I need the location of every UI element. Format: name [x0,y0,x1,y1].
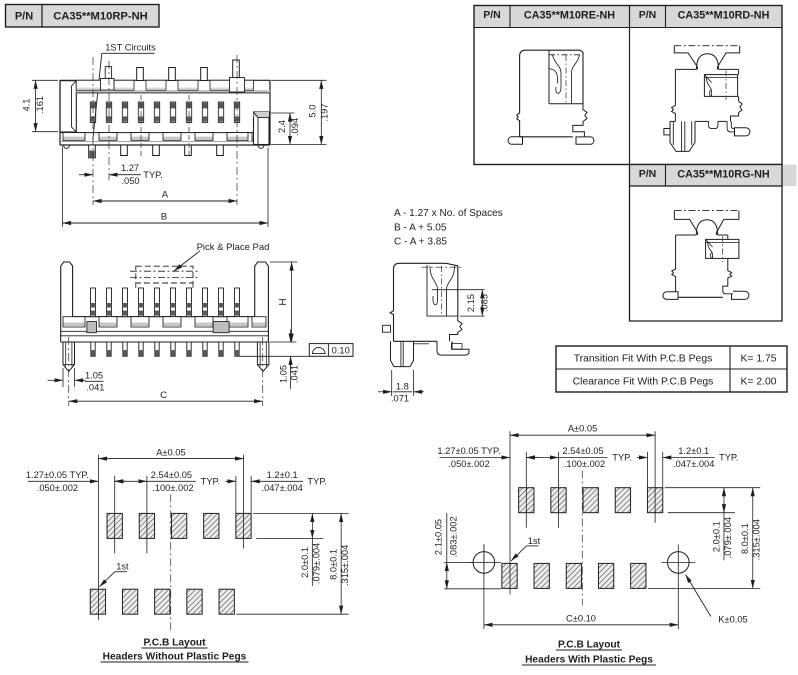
rear view: body outline with end towers [61,262,269,342]
svg-text:P/N: P/N [639,9,657,21]
svg-text:CA35**M10RP-NH: CA35**M10RP-NH [53,11,148,23]
svg-text:K±0.05: K±0.05 [718,614,747,624]
peg holes (circles) in right PCB layout [467,544,695,629]
dimension A±0.05 [510,424,655,436]
svg-text:Headers With Plastic Pegs: Headers With Plastic Pegs [525,655,653,666]
svg-text:K= 1.75: K= 1.75 [740,354,776,365]
front view: contact slot 3 [122,102,127,123]
side view CA35**M10RG-NH [663,211,749,300]
dimension 2.4/.094 polarization height [271,113,300,145]
svg-text:H: H [278,298,289,305]
svg-text:.050±.002: .050±.002 [37,483,78,493]
svg-text:1ST Circuits: 1ST Circuits [105,42,156,52]
dimension 2.0 pad height and 8.0 row span [236,513,350,614]
svg-text:1.2±0.1: 1.2±0.1 [267,470,298,480]
front view: connector body outline [60,80,270,145]
svg-text:.041: .041 [86,382,104,392]
front view: top rail with slots [76,80,270,93]
svg-text:.161: .161 [35,96,45,114]
svg-text:.071: .071 [391,393,409,403]
svg-text:B - A + 5.05: B - A + 5.05 [394,223,447,234]
svg-text:.083±.002: .083±.002 [448,516,458,557]
side view CA35**M10RD-NH (with peg) [664,46,750,152]
front view: 1ST Circuits label and leader [93,42,156,140]
svg-text:A: A [162,190,169,201]
svg-text:.197: .197 [320,103,330,121]
svg-text:A±0.05: A±0.05 [156,447,185,457]
formula notes A B C [394,208,503,248]
svg-text:TYP.: TYP. [307,476,326,486]
svg-text:TYP.: TYP. [612,453,631,463]
dimension 4.1/.161 overall height left [22,80,59,131]
dimension C (peg span) [69,390,263,401]
svg-text:2.54±0.05: 2.54±0.05 [562,446,603,456]
front view: left end cap [60,81,76,132]
front view: bottom solder tails (odd circuits) [89,145,224,158]
front view: contact slot 5 [154,102,159,123]
svg-text:2.15: 2.15 [466,294,476,312]
PCB layout pads (bottom row) [502,563,646,588]
svg-text:C±0.10: C±0.10 [566,613,596,623]
PCB layout caption [522,640,656,666]
top-right table: header texts RE / RD [483,9,769,22]
gray scan artifact right of RG header [784,166,797,186]
fit table: transition/clearance with K values [556,346,787,392]
svg-text:CA35**M10RE-NH: CA35**M10RE-NH [524,10,615,22]
svg-text:.047±.004: .047±.004 [673,459,714,469]
svg-text:A - 1.27 x No. of Spaces: A - 1.27 x No. of Spaces [394,208,503,219]
dimension row 1.27 / 2.54 / 1.2 [26,470,327,493]
rear view: Pick & Place Pad label and leader [174,242,269,271]
svg-text:.100±.002: .100±.002 [152,483,193,493]
svg-text:.094: .094 [290,118,300,136]
svg-text:.085: .085 [480,294,490,312]
svg-text:.315±.004: .315±.004 [752,519,762,560]
dimension 1.05/.041 standoff right [240,330,310,390]
side view CA35**M10RE-NH (SMT, no peg) [508,50,594,144]
svg-text:2.1±0.05: 2.1±0.05 [433,519,443,555]
front view: contact slot 1 [90,102,95,123]
dimension A (front view) [93,190,237,202]
svg-text:2.0±0.1: 2.0±0.1 [300,547,310,578]
svg-text:CA35**M10RG-NH: CA35**M10RG-NH [677,169,770,181]
PCB layout caption [101,638,249,663]
svg-text:P/N: P/N [639,168,657,180]
side view (profile) with 2.15 dimension [383,263,470,366]
rear view: right plastic peg [257,342,269,372]
svg-text:1.05: 1.05 [278,365,288,383]
svg-text:P/N: P/N [15,11,33,23]
front view: contact slot 8 [202,102,207,123]
front view: polarization box right end [254,112,270,145]
svg-text:1.05: 1.05 [85,370,103,380]
front view: pin 10 boss detail [230,78,245,93]
svg-text:2.4: 2.4 [277,120,287,133]
svg-text:0.10: 0.10 [332,345,350,355]
front view: top solder tails (even circuits) [137,60,240,81]
svg-text:.079±.004: .079±.004 [311,543,321,584]
svg-text:P.C.B Layout: P.C.B Layout [143,638,206,649]
svg-text:1st: 1st [116,562,129,572]
PCB layout pads (top row) [107,513,251,538]
1st pad label [511,536,541,561]
PCB layout pads (bottom row) [90,589,234,614]
dimension B (front view) [63,147,269,228]
front view: bottom rail with tabs [60,133,270,142]
svg-text:A±0.05: A±0.05 [568,424,597,434]
dimension 1.8/.071 peg width [378,370,424,403]
svg-text:C - A + 3.85: C - A + 3.85 [394,237,447,248]
svg-text:.041: .041 [289,365,299,383]
svg-text:.050±.002: .050±.002 [448,459,489,469]
PCB layout centerlines [98,455,251,632]
front view: contact slot 2 [106,102,111,123]
P/N table top-left: part number CA35**M10RP-NH [6,5,160,28]
front view: contact slot 7 [186,102,191,123]
svg-text:C: C [160,390,167,401]
PCB layout centerlines [510,431,663,605]
front view: contact slot 4 [138,102,143,123]
svg-text:TYP.: TYP. [143,170,162,180]
dimension 1.27/.050 TYP pitch [79,163,163,186]
svg-text:.100±.002: .100±.002 [564,459,605,469]
front view: contact slot 10 [234,102,239,123]
svg-text:2.54±0.05: 2.54±0.05 [151,470,192,480]
rear view: SMT feet [91,342,239,356]
svg-text:1st: 1st [528,536,541,546]
svg-text:.050: .050 [121,176,139,186]
svg-text:K= 2.00: K= 2.00 [740,377,776,388]
front view: 1st circuit step detail at pin 2 [101,67,115,91]
svg-text:.079±.004: .079±.004 [723,517,733,558]
svg-text:TYP.: TYP. [201,476,220,486]
svg-text:1.2±0.1: 1.2±0.1 [678,446,709,456]
dimension 5.0/.197 right side [271,80,330,144]
dimension 2.0 pad height and 8.0 row span [648,488,762,589]
dimension H (rear view height) [270,262,298,342]
svg-text:Clearance Fit With P.C.B Pegs: Clearance Fit With P.C.B Pegs [573,377,714,388]
svg-text:.315±.004: .315±.004 [340,545,350,586]
rear view: mid housing tabs [61,317,269,336]
front view: centerlines through circuits [93,55,237,205]
svg-text:8.0±0.1: 8.0±0.1 [329,549,339,580]
dimension 2.1/.083 peg vertical offset [433,513,501,589]
svg-text:1.27±0.05 TYP.: 1.27±0.05 TYP. [437,446,500,456]
svg-text:1.27±0.05 TYP.: 1.27±0.05 TYP. [26,470,89,480]
svg-text:.047±.004: .047±.004 [262,483,303,493]
dimension C±0.10 peg span [484,613,678,625]
rear view: upper pins [91,288,240,317]
svg-text:Transition Fit With P.C.B Pegs: Transition Fit With P.C.B Pegs [574,354,713,365]
svg-text:TYP.: TYP. [719,453,738,463]
P/N header CA35**M10RG-NH [630,165,797,187]
rear view: peg centerlines [69,337,263,406]
svg-text:Pick & Place Pad: Pick & Place Pad [197,242,270,253]
svg-text:P/N: P/N [483,9,501,21]
PCB layout pads (top row) [519,488,663,513]
1st pad label [99,562,129,587]
svg-text:1.27: 1.27 [121,163,139,173]
svg-text:8.0±0.1: 8.0±0.1 [740,523,750,554]
svg-text:1.8: 1.8 [396,381,409,391]
dimension A±0.05 [98,447,243,458]
front view: small mounting nubs [64,145,265,148]
K±0.05 leader and label [686,575,748,625]
dimension row 1.27 / 2.54 / 1.2 [437,446,738,469]
rear view: pick and place pad (dashed) [130,266,199,290]
svg-text:B: B [161,212,167,223]
svg-text:5.0: 5.0 [308,105,318,118]
svg-text:Headers Without Plastic Pegs: Headers Without Plastic Pegs [103,652,247,663]
svg-text:CA35**M10RD-NH: CA35**M10RD-NH [678,10,770,22]
svg-text:P.C.B Layout: P.C.B Layout [558,640,621,651]
front view: contact slot 6 [170,102,175,123]
top-right table: outer frame [474,6,782,165]
rear view: left plastic peg [63,342,75,372]
dimension 1.05/.041 peg width left [48,368,105,392]
flatness callout 0.10 [309,344,353,357]
RG drawing frame [630,186,783,321]
front view: contact slot 9 [218,102,223,123]
dimension 2.15/.085 [432,290,490,316]
svg-text:2.0±0.1: 2.0±0.1 [711,521,721,552]
svg-text:4.1: 4.1 [22,99,32,112]
